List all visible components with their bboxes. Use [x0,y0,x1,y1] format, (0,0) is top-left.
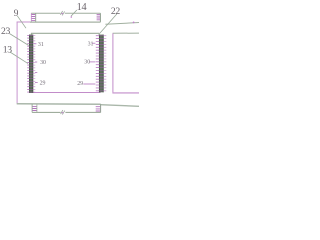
board left edge [16,22,18,104]
svg-text:31: 31 [88,42,94,48]
wire exiting bottom right lower [101,105,140,107]
connector J1 body stripes [29,35,33,92]
bottom connector box left edge [31,104,33,112]
svg-text:29: 29 [77,81,83,87]
wire top edge of connector box 14 [31,12,100,14]
leader for 14 [71,10,77,16]
background [0,0,139,120]
pin label dash 30 right [89,61,95,63]
break squiggle top [60,11,64,16]
pin label dash 31 left [34,43,36,45]
pin label dash 31 right [92,42,95,44]
connector box 14 left pins [32,15,36,21]
svg-text:30: 30 [40,60,46,66]
bottom connector box bottom edge [32,111,101,113]
pin label dash 29 left [35,82,38,84]
svg-text:9: 9 [14,9,19,19]
board right edge [112,33,114,92]
svg-text:22: 22 [111,6,120,17]
connector box 14 right pins [97,14,100,19]
connector J1 body [29,35,33,93]
wire exiting top right [105,23,139,25]
connector J2 outer pins [96,36,99,91]
connector J1 inner pins [33,35,35,92]
break squiggle bottom [61,110,65,115]
wire between connector bottoms [31,92,100,94]
svg-text:23: 23 [1,26,10,37]
inner board top edge extension right [113,32,139,34]
pin label dash 30 left [35,61,37,63]
leader for 9 [17,16,26,28]
pin label dash mid left [35,72,37,74]
board bottom edge [17,103,101,106]
bottom connector box left divider [36,104,38,112]
pin label dash 29 right [83,83,95,85]
inner board top edge [31,32,99,34]
svg-text:13: 13 [3,45,12,56]
leader for 13 [10,52,28,64]
leader for 23 [10,34,29,46]
svg-text:14: 14 [77,2,87,13]
board top edge (purple part) [17,21,30,23]
svg-text:31: 31 [38,42,44,48]
inner board top-left corner stub [30,33,32,35]
connector J2 body stripes [99,36,104,91]
board top edge (under box 14) [30,21,100,23]
connector J1 outer pins [27,35,29,92]
leader for 22 [99,14,117,35]
bottom connector box right edge [100,104,102,112]
bottom connector box left pins [33,106,37,110]
joint dot on top right wire [133,22,135,24]
connector box 14 right edge [99,13,101,22]
connector J2 inner pins [104,36,107,91]
svg-text:30: 30 [84,59,90,65]
connector box 14 left divider [35,13,37,22]
wire exiting bottom right [112,92,139,94]
connector box 14 left edge [30,13,32,22]
bottom connector box right pins [96,107,101,111]
connector J2 body [99,35,104,93]
svg-text:29: 29 [40,81,46,87]
